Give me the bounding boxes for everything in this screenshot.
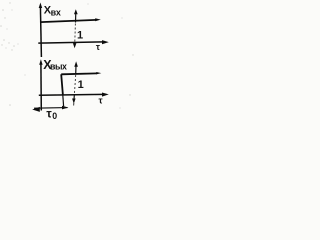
- input signal end arrowhead: [95, 18, 101, 21]
- x-axis arrowhead (bottom plot): [102, 93, 109, 97]
- x-axis (top plot, tau axis): [38, 42, 103, 43]
- right arrowhead of tau0 dimension: [62, 106, 68, 110]
- up arrowhead of dimension (bottom plot): [74, 61, 78, 66]
- label X_vx (top plot): [44, 5, 61, 18]
- tau0 delay dimension below bottom axis: [34, 107, 68, 110]
- svg-text:τ: τ: [99, 96, 103, 106]
- amplitude dimension line "1" (bottom plot): [75, 66, 77, 75]
- svg-text:1: 1: [78, 79, 84, 91]
- amplitude dimension line "1" (top plot): [75, 13, 77, 23]
- down arrowhead of dimension (bottom plot): [72, 99, 76, 104]
- down arrowhead of dimension (top plot): [73, 43, 77, 48]
- output step riser: [61, 74, 63, 95]
- svg-text:1: 1: [77, 30, 83, 42]
- up arrowhead of dimension (top plot): [74, 9, 78, 14]
- output signal top line at level 1: [61, 72, 97, 75]
- svg-text:0: 0: [52, 111, 57, 121]
- label tau0: [46, 106, 57, 121]
- svg-text:вых: вых: [50, 62, 67, 72]
- y-axis (top plot): [40, 6, 41, 57]
- y-axis arrowhead (top plot): [39, 3, 43, 9]
- input signal line at level 1: [41, 20, 97, 22]
- x-axis (bottom plot, tau axis): [39, 93, 103, 96]
- x-axis arrowhead (top plot): [102, 40, 109, 44]
- left arrowhead of tau0 dimension: [32, 107, 40, 112]
- y-axis arrowhead (bottom plot): [39, 59, 42, 65]
- riser reference extension below axis: [62, 95, 65, 106]
- svg-text:вх: вх: [51, 7, 61, 17]
- output signal end arrowhead: [96, 72, 101, 74]
- scan speckles: [0, 2, 134, 108]
- label X_vyx (bottom plot): [43, 58, 67, 72]
- svg-text:τ: τ: [96, 42, 100, 52]
- y-axis (bottom plot): [40, 63, 42, 111]
